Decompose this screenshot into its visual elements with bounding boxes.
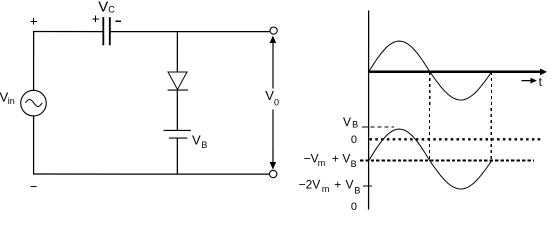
svg-text:B: B <box>201 140 207 150</box>
svg-text:B: B <box>352 120 358 130</box>
terminal bottom-right (open circle) <box>269 170 276 177</box>
svg-text:V: V <box>342 152 350 166</box>
label - (bottom-left input polarity) <box>30 186 36 187</box>
dashed vertical guide 2 <box>490 72 492 161</box>
small arrow to t label <box>522 80 533 82</box>
dashed vertical guide 1 <box>429 72 431 160</box>
svg-text:+: + <box>332 152 339 166</box>
wire: middle branch (diode to battery) <box>176 90 178 130</box>
source Vin circle <box>21 90 47 116</box>
wire: top wire left segment (source to capacitor) <box>33 31 103 33</box>
V0 arrowhead down <box>270 162 277 170</box>
svg-text:V: V <box>265 88 274 103</box>
capacitor VC plates <box>102 17 110 45</box>
svg-text:V: V <box>192 132 201 147</box>
label -Vm+VB <box>304 152 357 169</box>
svg-text:0: 0 <box>351 134 357 146</box>
wire: middle branch bottom (battery to bottom wire) <box>176 138 178 175</box>
lower (clamped) sine waveform <box>368 129 491 189</box>
V0 arrow line upper <box>272 41 274 88</box>
V0 arrow line lower <box>272 109 274 164</box>
svg-text:V: V <box>343 115 351 129</box>
svg-text:t: t <box>539 75 543 89</box>
wire: left wire lower segment <box>33 116 35 175</box>
t axis arrowhead <box>540 68 547 75</box>
svg-text:V: V <box>345 177 353 191</box>
upper sine waveform <box>369 41 492 100</box>
wire: bottom wire <box>33 173 270 175</box>
label - (capacitor right polarity) <box>115 21 121 22</box>
svg-text:−V: −V <box>304 152 319 166</box>
wire: middle branch top (top wire to diode) <box>176 32 178 72</box>
svg-text:m: m <box>322 184 330 194</box>
svg-text:−2V: −2V <box>299 177 321 191</box>
label + (top-left input polarity) <box>30 18 37 25</box>
svg-text:+: + <box>334 177 341 191</box>
thick dotted -Vm+VB level line <box>360 159 534 161</box>
svg-text:B: B <box>351 159 357 169</box>
label -2Vm+VB <box>299 177 361 195</box>
VB level dashed line to wave peak <box>370 126 394 128</box>
svg-text:VC: VC <box>98 0 115 15</box>
battery VB plates <box>163 130 190 139</box>
svg-text:B: B <box>354 185 360 195</box>
label + (capacitor left polarity) <box>92 16 99 23</box>
terminal top-right (open circle) <box>270 27 277 34</box>
V0 arrowhead up <box>270 35 277 43</box>
VB level tick <box>362 126 368 128</box>
svg-text:0: 0 <box>351 201 357 213</box>
-2Vm+VB level tick <box>363 185 372 187</box>
diode D (pointing down) <box>168 72 188 90</box>
wire: left wire upper segment <box>33 31 35 90</box>
graph t axis (thick) <box>368 71 542 73</box>
svg-text:0: 0 <box>274 98 279 108</box>
source Vin sine symbol <box>25 99 42 106</box>
graph vertical axis <box>368 11 370 210</box>
dotted zero-level line <box>369 138 542 140</box>
svg-text:m: m <box>318 158 326 168</box>
wire: top wire right segment (capacitor to output terminal) <box>110 31 269 33</box>
svg-text:in: in <box>8 96 15 106</box>
